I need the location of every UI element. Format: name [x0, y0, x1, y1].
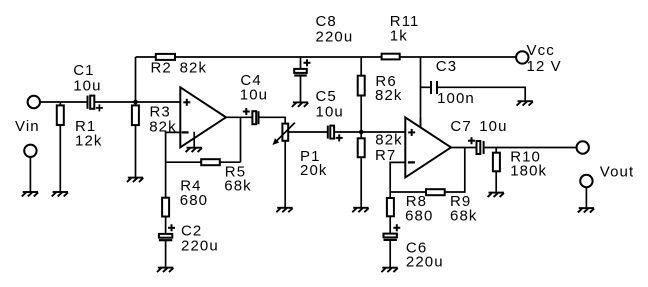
resistor R1 — [57, 102, 64, 192]
svg-text:R7: R7 — [375, 147, 396, 164]
ground below C6 — [381, 268, 397, 272]
wire Vin bottom to ground — [29, 157, 31, 192]
svg-text:20k: 20k — [300, 162, 328, 179]
resistor R3 — [132, 102, 139, 178]
wire U1 output — [226, 116, 252, 118]
ground below R10 — [488, 193, 504, 197]
ground below R1 — [52, 192, 68, 196]
capacitor C8 — [294, 57, 310, 102]
svg-text:82k: 82k — [375, 87, 403, 104]
svg-text:220u: 220u — [316, 28, 354, 45]
resistor R4 — [162, 162, 169, 234]
terminal Vout top — [577, 141, 589, 153]
terminal Vin bottom — [24, 145, 36, 157]
wire P1 wiper to C5 — [288, 131, 327, 133]
wire feedback bottom left — [166, 161, 202, 163]
wire R9 to output tap — [445, 148, 465, 193]
op-amp U2 — [405, 117, 451, 177]
resistor R9 — [426, 189, 445, 195]
wire U1 - input — [166, 132, 181, 162]
capacitor C5 — [328, 126, 343, 142]
svg-text:680: 680 — [180, 192, 208, 209]
capacitor C6 — [384, 224, 401, 267]
svg-text:12 V: 12 V — [527, 58, 562, 75]
terminal Vin top — [28, 96, 40, 108]
svg-text:10u: 10u — [73, 77, 101, 94]
resistor R11 — [382, 54, 400, 60]
resistor R5 — [201, 159, 220, 165]
ground below R3 — [127, 178, 143, 182]
ground below R7 — [352, 208, 368, 212]
wire C4 to P1 — [260, 117, 286, 123]
svg-text:10u: 10u — [316, 103, 344, 120]
wire C3 branch — [421, 86, 431, 88]
svg-text:82k: 82k — [149, 118, 177, 135]
svg-text:68k: 68k — [450, 207, 478, 224]
resistor R6 — [358, 57, 365, 132]
wire C3 to ground — [438, 87, 525, 101]
wire R5 to feedback tap — [220, 161, 241, 163]
wire Vin to C1 — [40, 101, 87, 103]
ground below op-amp U1 — [186, 148, 202, 152]
svg-text:68k: 68k — [224, 177, 252, 194]
ground below C8 — [292, 102, 308, 106]
svg-text:680: 680 — [405, 207, 433, 224]
svg-text:10u: 10u — [240, 86, 268, 103]
resistor R2 — [156, 54, 175, 60]
svg-text:Vcc: Vcc — [527, 42, 555, 59]
svg-text:100n: 100n — [437, 90, 475, 107]
wire Vcc rail — [136, 56, 517, 58]
svg-text:R2: R2 — [151, 59, 172, 76]
capacitor C2 — [159, 224, 175, 267]
capacitor C7 — [468, 137, 484, 154]
wire C7 to Vout — [485, 147, 577, 149]
svg-text:10u: 10u — [479, 118, 507, 135]
svg-text:Vout: Vout — [600, 163, 634, 180]
wire Vout bottom to ground — [585, 187, 587, 208]
op-amp U2 V+ pin stub over triangle — [420, 118, 422, 128]
resistor R7 — [358, 132, 365, 208]
svg-text:C7: C7 — [450, 118, 471, 135]
svg-text:82k: 82k — [180, 59, 208, 76]
capacitor C3 — [431, 81, 437, 94]
svg-text:12k: 12k — [75, 132, 103, 149]
wire feedback tap down from output — [240, 117, 242, 162]
resistor R10 — [493, 148, 500, 193]
svg-text:C3: C3 — [436, 58, 457, 75]
svg-text:180k: 180k — [510, 163, 547, 180]
ground below P1 — [276, 208, 292, 212]
wire Vcc rail down to op-amp U2 V+ pin and C3 — [420, 57, 422, 128]
capacitor C4 — [243, 108, 259, 124]
svg-text:1k: 1k — [390, 27, 408, 44]
wire node A up to Vcc rail — [135, 57, 137, 102]
svg-text:Vin: Vin — [15, 118, 40, 135]
wire C1 to op-amp U1 + input — [94, 101, 180, 103]
ground below Vin terminal — [22, 192, 38, 196]
wire U2 output — [451, 147, 477, 149]
ground below C2 — [157, 268, 173, 272]
op-amp U1 — [180, 87, 226, 147]
svg-text:220u: 220u — [181, 238, 219, 255]
node B (junction dot) — [359, 130, 364, 135]
terminal Vcc — [516, 51, 528, 63]
terminal Vout bottom — [580, 175, 592, 187]
ground right of C3 — [517, 101, 533, 105]
svg-text:220u: 220u — [406, 253, 444, 270]
potentiometer P1 — [273, 123, 295, 208]
wire C5 to node B — [334, 131, 405, 133]
wire feedback2 left — [390, 191, 426, 193]
op-amp U1 V- pin stub — [193, 132, 195, 148]
ground below Vout terminal — [578, 208, 594, 212]
wire U2 - input — [390, 162, 405, 192]
resistor R8 — [387, 192, 394, 234]
node A (junction dot) — [133, 100, 138, 105]
capacitor C1 — [88, 96, 103, 112]
